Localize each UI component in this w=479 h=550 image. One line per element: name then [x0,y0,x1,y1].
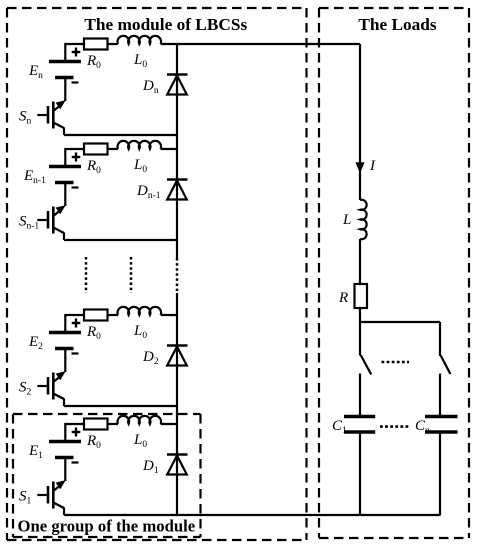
svg-text:The module of LBCSs: The module of LBCSs [84,15,247,34]
svg-text:C1: C1 [332,418,347,436]
diode D1 [167,455,188,475]
wire: module En top rail [65,44,84,60]
dotted continuation between switches [382,361,410,364]
svg-text:L: L [342,212,351,228]
switch 1 (left branch) [360,322,371,416]
label + [75,153,77,162]
battery En-1: positive plate [49,165,81,168]
svg-text:E1: E1 [28,443,43,461]
wire: C1 bottom to ground rail [359,432,361,515]
dashed box: The module of LBCSs [7,8,307,540]
transistor S2 (IGBT) [37,371,65,406]
dotted continuation column middle [130,257,133,293]
wire: module En-1 bottom rail [64,239,177,241]
label - (minus) [72,352,79,354]
dotted continuation between capacitors [380,425,411,428]
wire: module En-1 top rail [65,149,84,165]
inductor L0 (module E2) [118,307,162,315]
dashed box: The Loads [319,8,469,538]
wire: R to branch tee [359,308,361,322]
capacitor Cn [425,417,458,433]
wire: module E2 bottom rail [64,405,177,407]
resistor R0 (module E1) [84,419,108,430]
wire: diode bus dotted continuation segment [176,258,179,293]
battery E1: positive plate [49,440,81,443]
battery En-1: negative plate [55,181,74,184]
dotted continuation column left [85,257,88,293]
wire: module E1 bottom rail [64,514,441,516]
wire: diode bus vertical (bottom solid segment) [176,293,178,515]
wire: Cn bottom to ground rail [439,432,441,515]
wire: battery to IGBT collector [64,79,66,101]
diode Dn-1 [167,180,188,200]
svg-text:R: R [338,290,348,306]
svg-text:D1: D1 [142,458,159,476]
inductor L0 (module En-1) [118,141,162,149]
svg-text:R0: R0 [86,158,101,176]
transistor Sn (IGBT) [37,100,65,135]
wire: top feed from module bus to loads [177,43,360,45]
wire: C1 top lead [359,415,361,418]
inductor L0 (module En) [118,36,162,44]
battery E2: negative plate [55,347,74,350]
svg-text:L0: L0 [133,52,147,70]
battery E1: negative plate [55,456,74,459]
svg-text:The Loads: The Loads [358,15,437,34]
transistor S1 (IGBT) [37,480,65,515]
svg-text:Sn-1: Sn-1 [19,214,39,232]
dashed box: One group of the module [13,414,201,537]
diode D2 [167,346,188,366]
wire: battery to IGBT collector [64,184,66,206]
svg-text:Dn-1: Dn-1 [136,183,161,201]
svg-text:En-1: En-1 [23,168,46,186]
label + [75,428,77,437]
diode Dn [167,75,188,95]
svg-text:En: En [28,63,43,81]
wire: battery to IGBT collector [64,459,66,481]
svg-text:S2: S2 [19,380,32,398]
svg-text:One group of the module: One group of the module [18,517,196,536]
transistor Sn-1 (IGBT) [37,205,65,240]
current arrow I [355,162,364,173]
wire: battery to IGBT collector [64,350,66,372]
label - (minus) [72,461,79,463]
wire: loads vertical feed [359,44,361,200]
resistor R (loads) [355,284,368,308]
battery E2: positive plate [49,331,81,334]
svg-text:L0: L0 [133,323,147,341]
svg-text:L0: L0 [133,432,147,450]
resistor R0 (module E2) [84,310,108,321]
svg-text:I: I [369,158,376,174]
inductor L [360,200,367,239]
label + [75,48,77,57]
wire: module E1 top rail [65,424,84,440]
resistor R0 (module En-1) [84,144,108,155]
wire: module En bottom rail [64,134,177,136]
wire: diode bus vertical (top solid segment) [176,44,178,258]
label - (minus) [72,186,79,188]
label + [75,319,77,328]
resistor R0 (module En) [84,39,108,50]
svg-text:E2: E2 [28,334,43,352]
svg-text:D2: D2 [142,349,159,367]
wire: branch tee horizontal [360,321,440,323]
svg-text:R0: R0 [86,53,101,71]
label - (minus) [72,81,79,83]
svg-text:S1: S1 [19,489,32,507]
svg-text:Sn: Sn [19,109,32,127]
capacitor C1 [344,417,375,433]
wire: Cn top to switch [439,415,441,418]
svg-text:R0: R0 [86,324,101,342]
svg-text:R0: R0 [86,433,101,451]
svg-text:Cn: Cn [415,418,430,436]
svg-text:Dn: Dn [142,78,159,96]
wire: module E2 top rail [65,315,84,331]
svg-text:L0: L0 [133,157,147,175]
inductor L0 (module E1) [118,416,162,424]
battery En: negative plate [55,76,74,79]
battery En: positive plate [49,60,81,63]
switch n (right branch) [440,322,450,416]
wire: L to R [359,239,361,284]
